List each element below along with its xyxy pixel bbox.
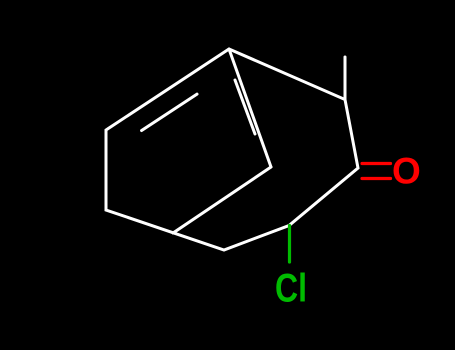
svg-text:Cl: Cl	[275, 265, 307, 310]
svg-text:O: O	[392, 151, 421, 192]
